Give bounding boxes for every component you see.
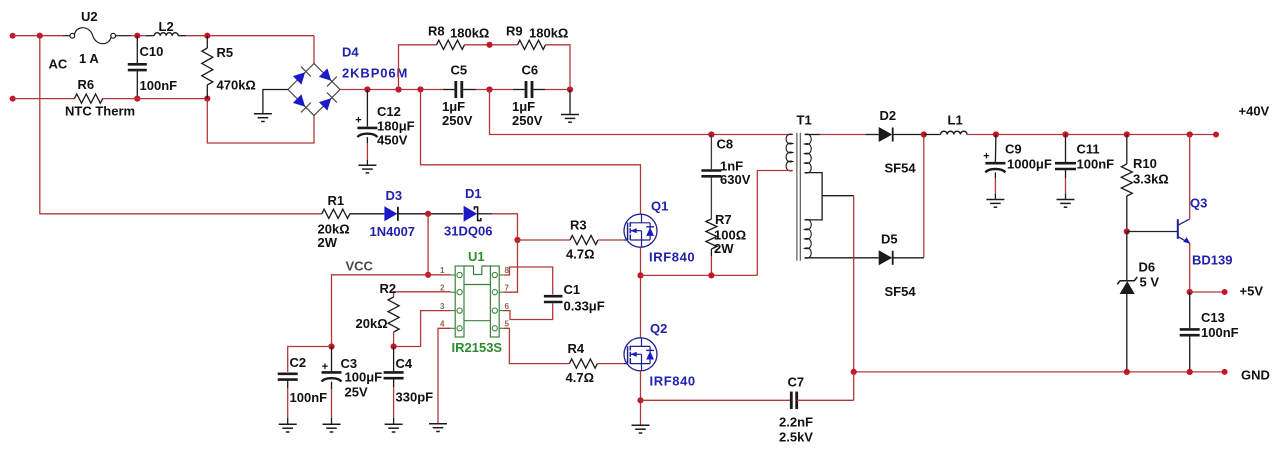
wire D6 to gnd rail (1126, 294, 1128, 372)
resistor R2 (388, 297, 399, 332)
svg-text:D4: D4 (342, 45, 359, 60)
terminal GND (1222, 369, 1228, 375)
node R5 top (204, 33, 210, 39)
node D3 D1 junction (425, 211, 431, 217)
AC input terminal top (10, 33, 16, 39)
wire R10 to D6 (1126, 232, 1128, 281)
wire R8 branch up (399, 45, 437, 90)
ground pin4 (429, 423, 447, 425)
inductor L2 (146, 35, 154, 37)
svg-text:C13: C13 (1201, 310, 1225, 325)
fuse U2 (70, 33, 75, 38)
wire secondary link (805, 173, 823, 220)
wire Q3 collector (1189, 135, 1191, 219)
svg-text:100nF: 100nF (1077, 157, 1115, 172)
wire primary bottom (757, 171, 792, 276)
wire +5V (1190, 291, 1225, 293)
svg-text:+5V: +5V (1240, 284, 1264, 299)
svg-text:IR2153S: IR2153S (452, 340, 503, 355)
svg-text:+: + (355, 115, 361, 127)
wire Q1 source to Q2 drain (640, 247, 642, 338)
svg-text:R5: R5 (217, 45, 234, 60)
svg-text:630V: 630V (720, 172, 751, 187)
wire output rail (967, 134, 1216, 136)
capacitor C12 (366, 90, 368, 127)
svg-text:0.33μF: 0.33μF (564, 299, 605, 314)
capacitor C13 (1189, 292, 1191, 328)
svg-text:C10: C10 (140, 44, 164, 59)
svg-text:4.7Ω: 4.7Ω (566, 247, 595, 262)
svg-text:100nF: 100nF (140, 78, 178, 93)
svg-text:VCC: VCC (346, 259, 374, 274)
svg-text:3.3kΩ: 3.3kΩ (1133, 172, 1169, 187)
node C9 tap (993, 131, 999, 137)
resistor R3 (570, 235, 598, 244)
wire midpoint to transformer (641, 274, 758, 276)
wire secondary top terminal (805, 134, 820, 136)
node R7 midpoint (708, 272, 714, 278)
wire R3 to Q1 gate (598, 239, 624, 241)
node C5 C6 midpoint (486, 86, 492, 92)
svg-text:C4: C4 (396, 356, 413, 371)
svg-text:250V: 250V (512, 113, 543, 128)
node C13 gnd (1187, 369, 1193, 375)
bridge rectifier D4 (288, 64, 340, 116)
svg-text:SF54: SF54 (885, 161, 917, 176)
ground C11 (1057, 199, 1075, 201)
ground C2 (279, 423, 297, 425)
svg-text:R8: R8 (428, 24, 445, 39)
wire VCC to C2 (288, 347, 332, 373)
svg-text:R2: R2 (380, 281, 397, 296)
transistor Q2 IRF840 (624, 338, 657, 371)
svg-text:1μF: 1μF (442, 99, 465, 114)
wire pin6 to C1 (504, 303, 553, 320)
node top-left junction (37, 33, 43, 39)
svg-text:2.5kV: 2.5kV (779, 430, 813, 445)
capacitor C9 (994, 135, 997, 163)
ground Q2 source (632, 424, 650, 426)
wire pin5 to R4 (504, 328, 570, 363)
wire pin4 to ground (438, 328, 451, 423)
svg-text:4.7Ω: 4.7Ω (566, 370, 595, 385)
svg-text:+40V: +40V (1239, 104, 1270, 119)
svg-text:SF54: SF54 (885, 284, 917, 299)
wire AC top line (13, 35, 63, 37)
wire Q2 source (640, 371, 642, 425)
ground C3 (323, 423, 341, 425)
svg-text:C5: C5 (451, 63, 468, 78)
svg-text:100nF: 100nF (1201, 325, 1239, 340)
node R8 branch (395, 86, 401, 92)
svg-text:U1: U1 (468, 249, 485, 264)
svg-text:180kΩ: 180kΩ (529, 26, 568, 41)
resistor R1 (322, 209, 350, 218)
svg-text:+: + (322, 361, 328, 373)
node R8 R9 mid (486, 42, 492, 48)
ground C12 (358, 164, 376, 166)
svg-text:R4: R4 (568, 341, 585, 356)
svg-text:R7: R7 (715, 212, 732, 227)
wire C7 left (641, 399, 792, 401)
wire cap-divider mid to primary (490, 90, 793, 135)
svg-text:D3: D3 (386, 188, 403, 203)
svg-text:2W: 2W (714, 241, 734, 256)
node C6 ground (567, 86, 573, 92)
terminal +40V (1213, 132, 1219, 138)
transformer core (796, 133, 798, 261)
svg-text:R1: R1 (328, 193, 345, 208)
transformer secondary bottom (805, 219, 812, 258)
wire C7 right (797, 399, 854, 401)
svg-text:C7: C7 (788, 375, 805, 390)
wire VCC left (332, 275, 429, 347)
wire bridge left to ground (263, 90, 288, 114)
capacitor C3 (331, 347, 333, 372)
svg-text:2: 2 (440, 283, 445, 292)
diode D1 (464, 206, 478, 222)
diode D2 (866, 134, 879, 136)
svg-text:100μF: 100μF (345, 370, 383, 385)
transformer primary (786, 134, 793, 171)
svg-text:IRF840: IRF840 (650, 374, 696, 389)
svg-text:1 A: 1 A (79, 51, 99, 66)
svg-text:330pF: 330pF (396, 390, 434, 405)
svg-text:1μF: 1μF (512, 99, 535, 114)
capacitor C1 (544, 295, 563, 298)
svg-text:C6: C6 (522, 63, 539, 78)
svg-text:20kΩ: 20kΩ (356, 316, 388, 331)
wire VCC to pin1 (428, 274, 451, 276)
node half-bridge midpoint (637, 272, 643, 278)
svg-text:IRF840: IRF840 (649, 250, 695, 265)
transistor Q3 (1177, 219, 1179, 239)
svg-text:R10: R10 (1133, 156, 1157, 171)
wire Q3 emitter (1189, 243, 1191, 292)
svg-text:Q3: Q3 (1190, 196, 1207, 211)
capacitor C8 (710, 135, 712, 170)
capacitor C10 (136, 36, 138, 63)
resistor R4 (569, 359, 597, 368)
svg-text:C12: C12 (377, 104, 401, 119)
zener D6 (1120, 281, 1135, 294)
wire R9 to ground corner (546, 45, 571, 90)
inductor L1 (941, 131, 967, 134)
svg-text:R9: R9 (506, 24, 523, 39)
node C10 top (134, 33, 140, 39)
wire rail to L1 (924, 134, 941, 136)
capacitor C11 (1065, 135, 1067, 163)
svg-text:470kΩ: 470kΩ (217, 78, 256, 93)
svg-text:GND: GND (1241, 368, 1270, 383)
wire D5 up to rail (923, 135, 925, 258)
wire top AC to bridge (313, 36, 315, 64)
op-amp U1 IR2153S body (455, 266, 464, 337)
svg-text:AC: AC (49, 57, 68, 72)
svg-text:1N4007: 1N4007 (370, 224, 416, 239)
svg-text:U2: U2 (81, 9, 98, 24)
node C10 bottom (134, 96, 140, 102)
svg-text:D2: D2 (880, 108, 897, 123)
svg-text:C11: C11 (1077, 142, 1100, 157)
node VCC pin1 (425, 272, 431, 278)
resistor R5 (206, 36, 208, 48)
svg-text:2W: 2W (318, 235, 338, 250)
diode D5 (879, 250, 893, 265)
capacitor C5 (454, 81, 457, 98)
node Q3 collector tap (1187, 131, 1193, 137)
wire R4 to Q2 gate (597, 363, 624, 365)
svg-text:2.2nF: 2.2nF (779, 415, 813, 430)
svg-text:R6: R6 (78, 77, 95, 92)
svg-text:3: 3 (440, 302, 445, 311)
svg-text:C2: C2 (290, 355, 307, 370)
node R2 C4 pin3 (391, 343, 397, 349)
svg-text:R3: R3 (570, 218, 587, 233)
wire pin3 path (394, 311, 451, 347)
svg-text:Q1: Q1 (651, 199, 668, 214)
resistor R10 (1126, 135, 1128, 165)
wire base line (1127, 231, 1178, 233)
svg-text:D1: D1 (465, 186, 482, 201)
node Q1 drain branch (417, 86, 423, 92)
svg-text:25V: 25V (345, 385, 368, 400)
capacitor C4 (393, 347, 395, 372)
resistor R9 (518, 40, 546, 49)
wire C6 to ground (569, 90, 571, 115)
node R10 D6 base (1124, 228, 1130, 234)
svg-text:4: 4 (440, 320, 445, 329)
transistor Q1 IRF840 (624, 214, 657, 247)
wire secondary bottom terminal (805, 257, 879, 259)
node C8 top (708, 131, 714, 137)
node R10 tap (1124, 131, 1130, 137)
resistor R7 (706, 219, 717, 249)
terminal +5V (1222, 289, 1228, 295)
node D6 gnd (1124, 369, 1130, 375)
svg-text:7: 7 (505, 283, 510, 292)
wire VCC vertical (427, 214, 429, 275)
node R3 HO junction (514, 237, 520, 243)
wire left vertical to R1 line (40, 36, 322, 214)
svg-text:C1: C1 (564, 282, 581, 297)
wire HV rail (340, 89, 443, 91)
ground C5 C6 (561, 114, 579, 116)
node C11 tap (1062, 131, 1068, 137)
wire bottom AC to bridge (207, 99, 314, 143)
ground C4 (385, 423, 403, 425)
resistor R8 (437, 40, 465, 49)
ground bridge (254, 113, 272, 115)
ground C9 (986, 199, 1004, 201)
node GND centertap (851, 369, 857, 375)
wire D1 to R3 node (478, 213, 492, 215)
svg-text:T1: T1 (797, 113, 812, 128)
node C12 tap (364, 86, 370, 92)
diode D3 (384, 206, 397, 221)
svg-text:250V: 250V (442, 113, 473, 128)
svg-text:5: 5 (505, 320, 510, 329)
svg-text:D6: D6 (1139, 260, 1156, 275)
svg-text:D5: D5 (881, 232, 898, 247)
svg-text:BD139: BD139 (1192, 253, 1232, 268)
wire pin2 to R2 (394, 292, 451, 297)
wire R3 left (518, 239, 571, 241)
svg-text:450V: 450V (377, 133, 408, 148)
svg-text:C9: C9 (1005, 142, 1022, 157)
svg-text:6: 6 (505, 302, 510, 311)
resistor R6 (74, 94, 102, 103)
svg-text:NTC Therm: NTC Therm (65, 104, 135, 119)
capacitor C2 (278, 372, 298, 375)
svg-text:C8: C8 (717, 137, 734, 152)
transformer secondary top (805, 134, 812, 173)
svg-text:180kΩ: 180kΩ (450, 26, 489, 41)
svg-text:100nF: 100nF (290, 390, 328, 405)
node C7 branch (637, 397, 643, 403)
svg-text:31DQ06: 31DQ06 (444, 224, 492, 239)
wire pin8 to C1 (504, 267, 553, 295)
AC input terminal bottom (10, 96, 16, 102)
node D2 D5 join (921, 131, 927, 137)
wire center tap (822, 195, 854, 197)
wire R2 bottom (393, 332, 395, 347)
wire D3 to D1 (398, 213, 463, 215)
capacitor C6 (525, 81, 528, 98)
wire pin7 to R3 node (504, 240, 518, 292)
capacitor C7 (790, 392, 793, 410)
svg-text:Q2: Q2 (650, 321, 667, 336)
svg-text:180μF: 180μF (377, 119, 415, 134)
svg-text:L1: L1 (948, 113, 963, 128)
svg-text:1: 1 (440, 266, 445, 275)
node R5 bottom (204, 96, 210, 102)
wire R8 to R9 (465, 44, 518, 46)
node +5V junction (1187, 289, 1193, 295)
node VCC C3 (328, 343, 334, 349)
svg-text:5 V: 5 V (1140, 275, 1160, 290)
svg-text:1000μF: 1000μF (1007, 157, 1052, 172)
wire AC bottom line (13, 98, 75, 100)
wire GND rail (854, 371, 1225, 373)
svg-text:L2: L2 (159, 19, 174, 34)
wire R1 to D3 (350, 213, 385, 215)
wire HV to Q1 drain (421, 90, 641, 215)
svg-text:+: + (983, 151, 989, 163)
